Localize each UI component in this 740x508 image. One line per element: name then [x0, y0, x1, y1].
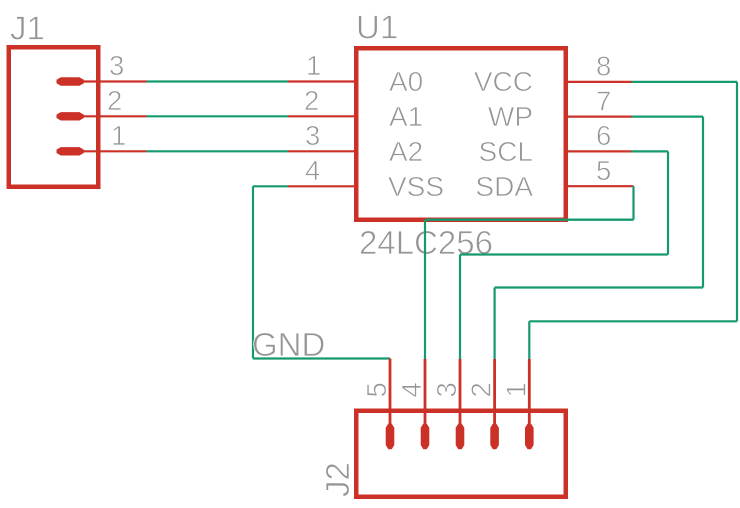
- wire net SCL: horizontal left: [460, 253, 668, 255]
- svg-text:J1: J1: [10, 10, 45, 47]
- svg-text:3: 3: [109, 50, 124, 81]
- svg-text:7: 7: [596, 85, 611, 116]
- wire net SDA: vertical to J2.4: [424, 220, 426, 359]
- svg-text:3: 3: [431, 382, 462, 397]
- wire net SCL: horizontal from U1.6: [632, 150, 669, 152]
- svg-text:VCC: VCC: [474, 66, 533, 97]
- svg-text:1: 1: [111, 120, 126, 151]
- wire net J1.3 to U1.1: [147, 80, 289, 82]
- J2 pad 1: [525, 424, 534, 450]
- J2 pad 4: [421, 424, 430, 450]
- svg-text:2: 2: [107, 85, 122, 116]
- wire net J1.2 to U1.2: [147, 115, 289, 117]
- wire net WP: horizontal from U1.7: [632, 115, 704, 117]
- U1 pin 7 stub: [566, 115, 632, 117]
- svg-text:WP: WP: [488, 101, 533, 132]
- svg-text:2: 2: [304, 85, 319, 116]
- U1 pin 3 stub: [288, 150, 356, 152]
- wire net VSS: vertical down: [252, 186, 254, 358]
- svg-text:A1: A1: [389, 101, 423, 132]
- wire net VSS: horizontal to J2.5: [253, 357, 390, 359]
- wire net WP: vertical down: [702, 117, 704, 288]
- wire net WP: horizontal left: [495, 286, 703, 288]
- U1 pin 4 stub: [288, 185, 356, 187]
- svg-text:VSS: VSS: [388, 171, 444, 202]
- svg-text:A0: A0: [389, 66, 423, 97]
- wire net VCC: horizontal left: [529, 320, 737, 322]
- svg-text:SDA: SDA: [475, 171, 533, 202]
- J2 pin 1 stub: [528, 359, 531, 430]
- U1 pin 8 stub: [566, 81, 632, 83]
- wire net SCL: vertical to J2.3: [459, 255, 461, 360]
- wire net VSS: U1.4 left: [253, 185, 288, 187]
- svg-text:3: 3: [305, 120, 320, 151]
- wire net SCL: vertical down: [667, 151, 669, 254]
- J2 pad 2: [490, 424, 499, 450]
- wire net SDA: horizontal along U1 bottom: [425, 218, 634, 220]
- wire net VCC: horizontal from U1.8: [632, 81, 738, 83]
- U1 pin 1 stub: [288, 80, 356, 82]
- J1 pin 2 stub: [80, 115, 147, 117]
- svg-text:6: 6: [596, 120, 611, 151]
- U1 pin 5 stub: [566, 185, 634, 187]
- J2 pin 4 stub: [424, 359, 427, 430]
- svg-text:J2: J2: [319, 462, 356, 497]
- svg-text:4: 4: [396, 382, 427, 397]
- U1 pin 6 stub: [566, 150, 632, 152]
- svg-text:1: 1: [306, 50, 321, 81]
- wire net SDA: vertical from U1.5: [632, 186, 634, 220]
- J1 pin 1 stub: [80, 150, 147, 152]
- J2 pad 5: [386, 424, 395, 450]
- wire net VCC: vertical down: [736, 82, 738, 321]
- J1 pad 3: [57, 77, 84, 85]
- connector J2 box: [356, 411, 566, 497]
- wire net WP: vertical to J2.2: [494, 288, 496, 360]
- svg-text:A2: A2: [389, 136, 423, 167]
- svg-text:GND: GND: [252, 326, 325, 363]
- wire net J1.1 to U1.3: [147, 150, 289, 152]
- svg-text:1: 1: [500, 382, 531, 397]
- J1 pin 3 stub: [80, 80, 147, 82]
- J2 pin 3 stub: [459, 359, 462, 430]
- svg-text:SCL: SCL: [479, 136, 533, 167]
- svg-text:U1: U1: [356, 9, 398, 46]
- J1 pad 1: [57, 147, 84, 155]
- J2 pad 3: [456, 424, 465, 450]
- J1 pad 2: [57, 112, 84, 120]
- U1 pin 2 stub: [288, 115, 356, 117]
- IC U1 box: [356, 48, 566, 220]
- svg-text:5: 5: [361, 382, 392, 397]
- J2 pin 5 stub: [389, 359, 392, 431]
- svg-text:4: 4: [305, 155, 320, 186]
- connector J1: [9, 47, 99, 187]
- svg-text:5: 5: [596, 155, 611, 186]
- wire net VCC: vertical to J2.1: [528, 321, 530, 359]
- svg-text:8: 8: [596, 51, 611, 82]
- svg-text:2: 2: [466, 382, 497, 397]
- J2 pin 2 stub: [493, 359, 496, 430]
